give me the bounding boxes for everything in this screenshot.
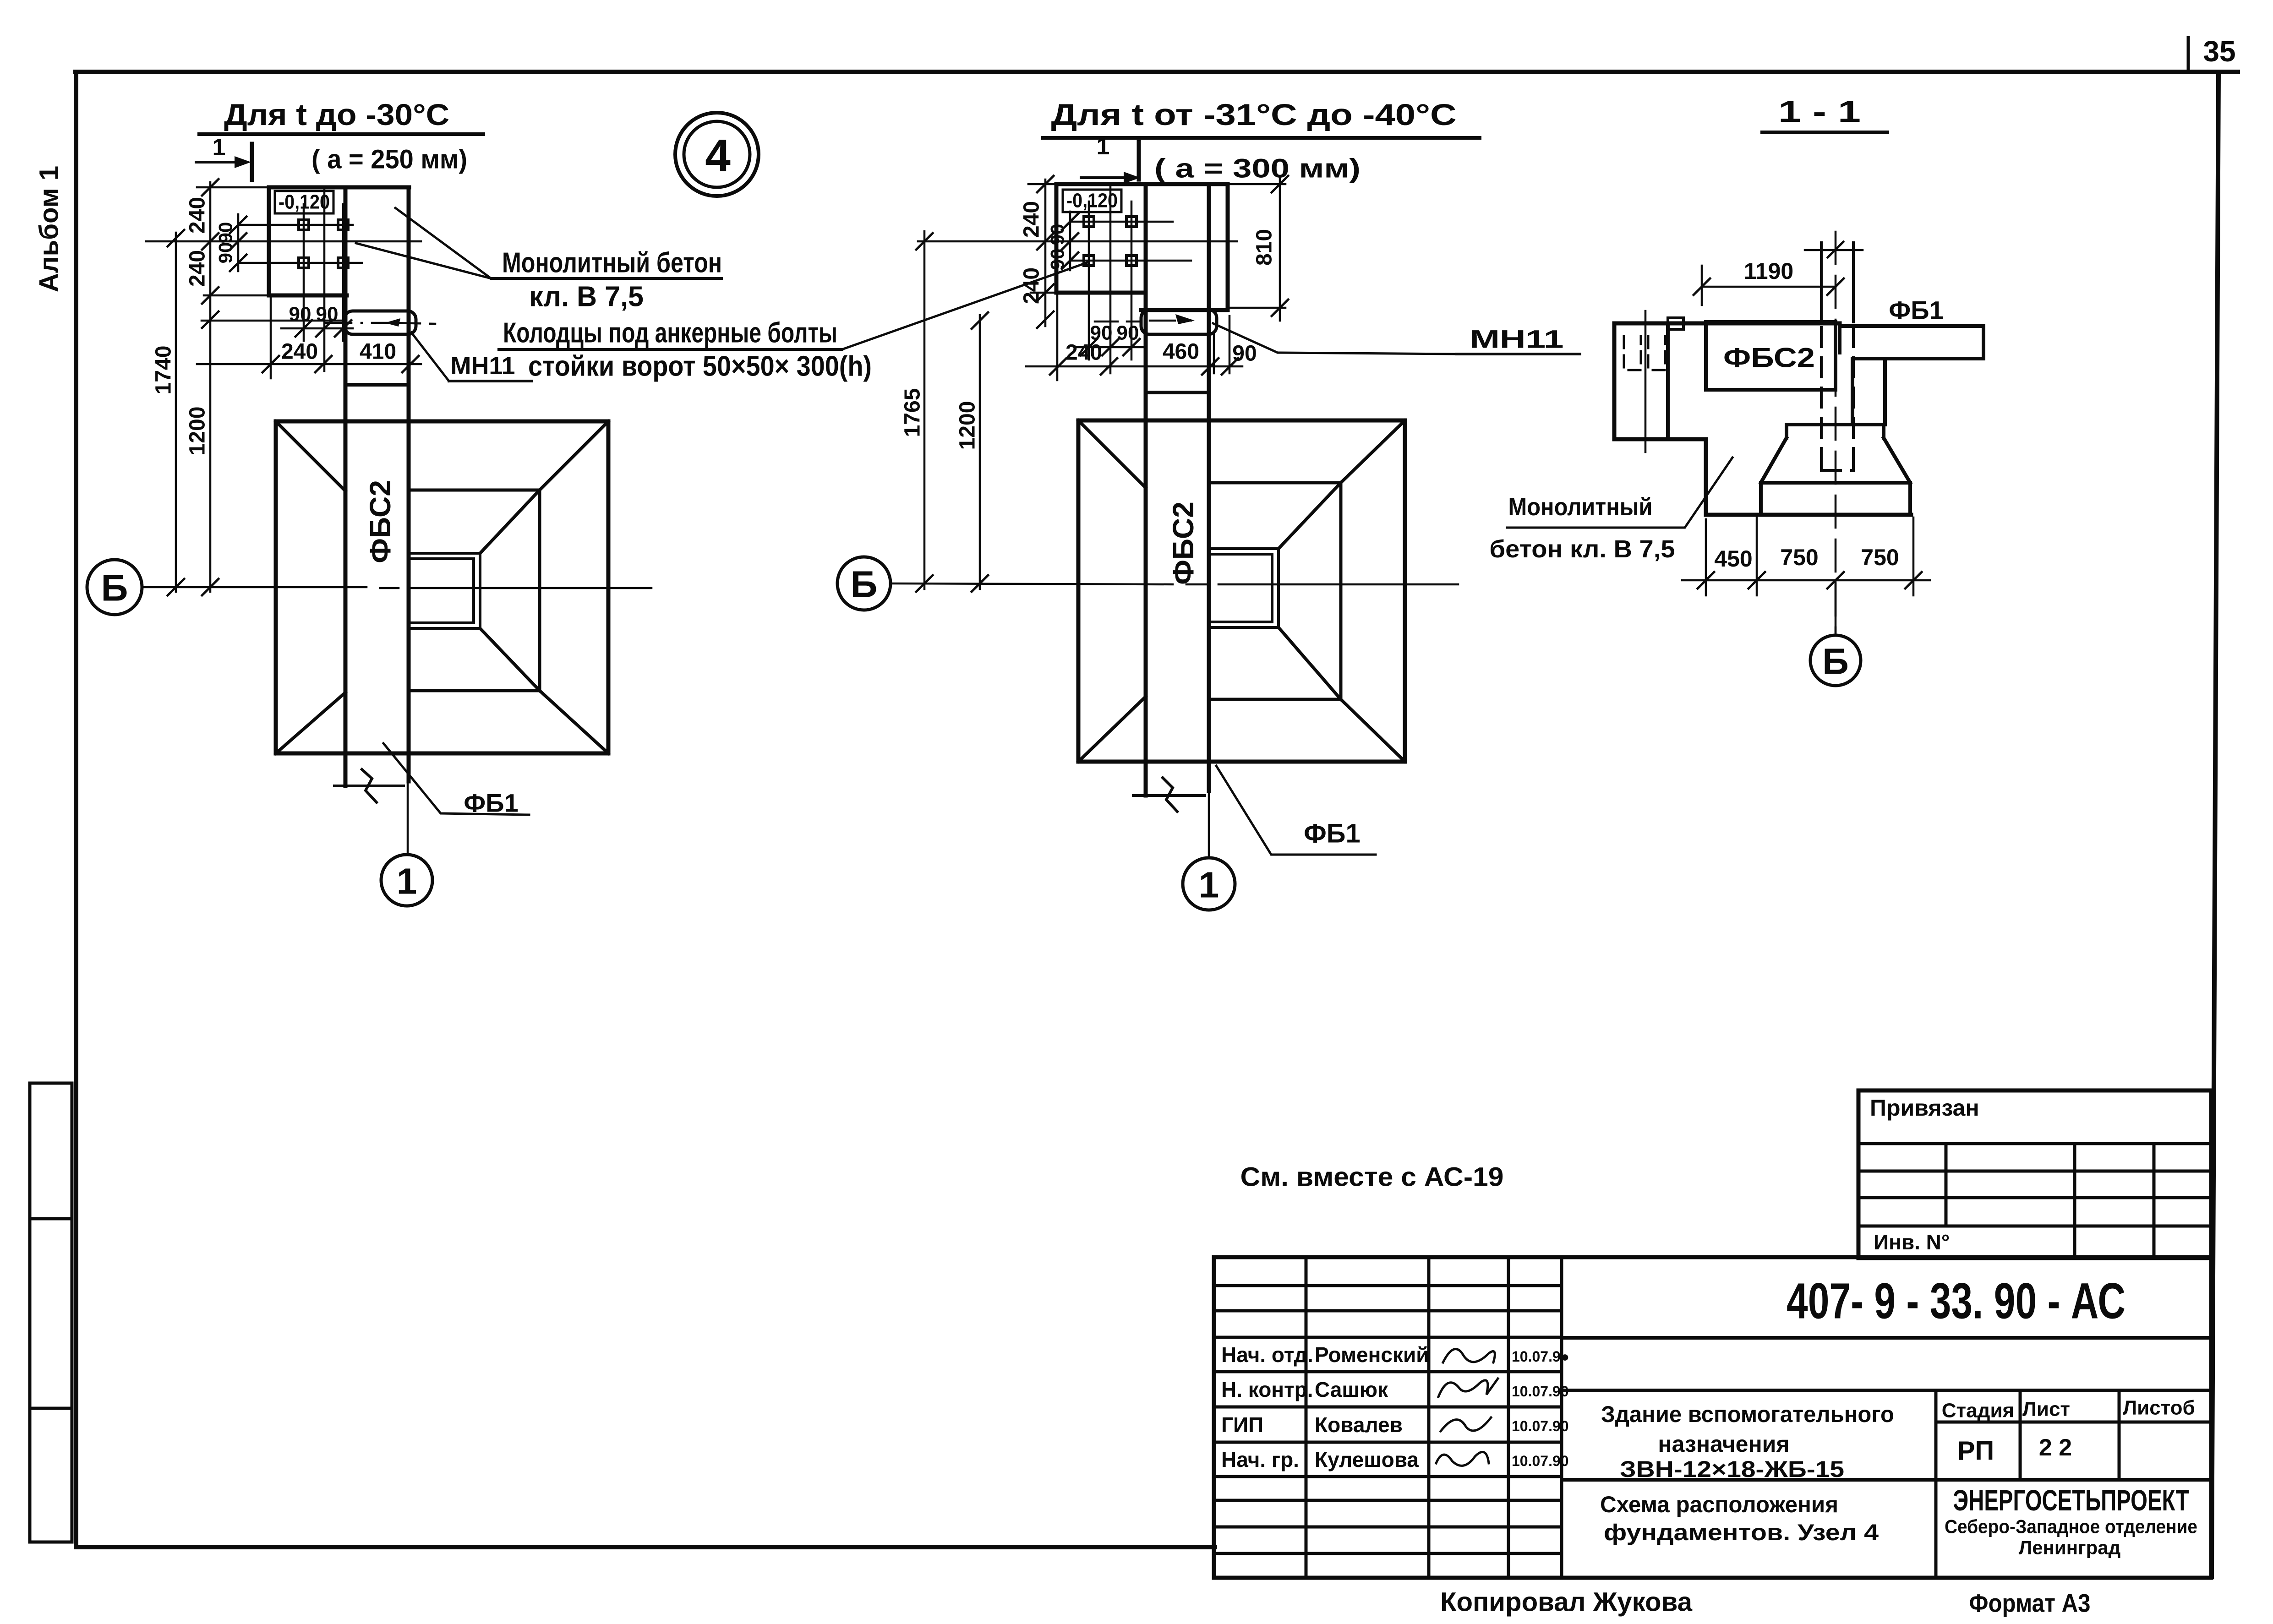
plan1 frustum diagonals (276, 421, 608, 753)
svg-text:90: 90 (1047, 249, 1068, 270)
svg-text:1200: 1200 (186, 407, 210, 456)
svg-text:10.07.90: 10.07.90 (1512, 1453, 1569, 1469)
plan2 FB1 leader (1216, 766, 1376, 855)
svg-text:Копировал Жукова: Копировал Жукова (1440, 1587, 1693, 1617)
left margin box column (30, 1083, 72, 1542)
svg-text:460: 460 (1163, 340, 1199, 364)
plan1 dim 90 90 below pad (281, 327, 353, 330)
svg-text:810: 810 (1252, 229, 1277, 266)
plan2 axis 1 circle (1183, 858, 1235, 910)
plan2 frustum diagonals (1078, 420, 1405, 762)
svg-text:1: 1 (1097, 133, 1110, 160)
svg-text:ФБС2: ФБС2 (1723, 343, 1815, 373)
section left block bolt axis (1645, 311, 1647, 452)
svg-text:1740: 1740 (152, 346, 176, 395)
svg-text:кл. В 7,5: кл. В 7,5 (529, 281, 644, 313)
plan1 pad left edge extension (270, 298, 272, 378)
plan2 dim chain 1200 line (979, 315, 981, 589)
plan2 dim 810 (1279, 178, 1281, 321)
svg-text:Стадия: Стадия (1942, 1400, 2014, 1422)
svg-text:407- 9 - 33. 90 - АС: 407- 9 - 33. 90 - АС (1787, 1273, 2125, 1330)
plan2 collar centreline (1095, 321, 1191, 322)
svg-text:Монолитный: Монолитный (1508, 493, 1653, 521)
svg-text:450: 450 (1714, 546, 1752, 572)
svg-text:ФБ1: ФБ1 (1304, 819, 1360, 849)
plan2 level label -0,120 box (1063, 190, 1121, 212)
plan2 bolt axis verticals (1089, 202, 1131, 360)
svg-text:90: 90 (215, 242, 236, 264)
svg-text:Формат А3: Формат А3 (1969, 1589, 2091, 1618)
plan2 column strip edges (1144, 184, 1148, 796)
section title underline (1762, 131, 1887, 134)
plan1 level label -0,120 box (275, 191, 333, 213)
plan1 axis B circle (87, 560, 142, 615)
plan2 top extension line (1028, 183, 1285, 185)
svg-text:Кулешова: Кулешова (1315, 1448, 1419, 1471)
plan2 column break line (1133, 794, 1205, 797)
svg-text:МН11: МН11 (1470, 325, 1564, 354)
svg-text:Б: Б (101, 567, 128, 609)
plan2 inner square double line (1210, 549, 1279, 627)
plan2 dim 240/460/90 (1026, 365, 1242, 368)
svg-text:Привязан: Привязан (1870, 1095, 1979, 1121)
svg-text:МН11: МН11 (450, 352, 515, 380)
svg-text:( a = 250 мм): ( a = 250 мм) (311, 145, 467, 174)
plan1 dim chain 1740 line (175, 233, 177, 592)
section axis dashed vertical (1835, 232, 1837, 634)
svg-text:90: 90 (1232, 342, 1257, 366)
frame top border (76, 70, 2238, 74)
svg-text:Колодцы под анкерные болты: Колодцы под анкерные болты (503, 317, 837, 349)
svg-text:1765: 1765 (901, 388, 925, 437)
frame bottom border (76, 1545, 1215, 1549)
section well dashed outline (1821, 327, 1853, 470)
svg-text:1: 1 (213, 134, 226, 161)
svg-text:240: 240 (186, 250, 210, 287)
svg-text:1190: 1190 (1744, 258, 1793, 284)
svg-text:Здание вспомогательного: Здание вспомогательного (1601, 1401, 1894, 1427)
svg-text:ФБС2: ФБС2 (1167, 501, 1200, 585)
svg-text:См. вместе с АС-19: См. вместе с АС-19 (1240, 1162, 1504, 1192)
svg-text:10.07.9●: 10.07.9● (1512, 1348, 1569, 1365)
plan1 pad centre vertical (323, 187, 326, 371)
frame left border (74, 72, 78, 1547)
section post top tick (1805, 249, 1863, 251)
plan1 pad bottom extension (204, 294, 269, 297)
plan2 collar MH11 (1141, 310, 1217, 334)
section post above ground (1821, 243, 1853, 322)
svg-text:Нач. отд.: Нач. отд. (1221, 1343, 1313, 1367)
plan2 column joint line (1146, 391, 1209, 394)
monolithic concrete leaders (356, 208, 491, 278)
plan2 axis 1 line to bubble (1208, 762, 1210, 858)
svg-text:Н. контр.: Н. контр. (1221, 1378, 1313, 1401)
section dim 1190 (1702, 266, 1836, 305)
detail mark circle 4 (675, 113, 759, 196)
svg-text:Ленинград: Ленинград (2019, 1537, 2121, 1559)
plan2 MH11 leader (1213, 323, 1457, 354)
plan2 axis B circle (837, 557, 891, 610)
svg-text:1: 1 (1199, 865, 1219, 905)
plan2 dim chain 1765 line (923, 231, 926, 589)
svg-text:Схема расположения: Схема расположения (1600, 1492, 1838, 1517)
svg-text:240: 240 (186, 197, 210, 234)
svg-text:ФБ1: ФБ1 (464, 789, 518, 817)
svg-text:Монолитный бетон: Монолитный бетон (502, 247, 722, 279)
small table rows (1858, 1144, 2211, 1226)
plan1 top extension line (197, 186, 269, 189)
plan1 axis 1 circle (381, 855, 432, 906)
plan1 centreline axis B (143, 587, 651, 588)
svg-text:фундаментов. Узел 4: фундаментов. Узел 4 (1604, 1520, 1879, 1545)
plan2 dim chain 90/90 line (1069, 212, 1071, 270)
stage table verticals (1936, 1390, 2211, 1578)
plan1 bolt axis verticals (304, 204, 343, 341)
svg-text:Инв. N°: Инв. N° (1874, 1230, 1950, 1254)
svg-text:Б: Б (851, 564, 878, 605)
svg-text:90: 90 (215, 222, 236, 244)
title block doc number box line (1562, 1338, 2211, 1480)
svg-text:ФБС2: ФБС2 (364, 480, 397, 563)
svg-text:2 2: 2 2 (2039, 1434, 2072, 1461)
svg-text:Листоб: Листоб (2123, 1397, 2195, 1419)
svg-text:750: 750 (1861, 545, 1899, 570)
svg-text:Себеро-Западное отделение: Себеро-Западное отделение (1945, 1516, 2197, 1537)
plan1 inner square double line (409, 553, 480, 628)
plan1 extension line collar level (202, 320, 344, 322)
svg-text:Сашюк: Сашюк (1315, 1378, 1388, 1401)
svg-text:90: 90 (289, 303, 311, 326)
plan2 anchor bolts (1084, 217, 1094, 227)
plan2 dim 90 90 below pad (1074, 346, 1145, 349)
plan1 dim chain 240/240/1200 line (209, 182, 212, 592)
svg-text:ЗВН-12×18-ЖБ-15: ЗВН-12×18-ЖБ-15 (1620, 1456, 1844, 1482)
plan1 section cut mark 1 (196, 161, 236, 163)
signature squiggles (1443, 1349, 1495, 1362)
plan2 dim chain 240/240 line (1044, 180, 1047, 326)
plan1 collar arrow (385, 318, 400, 327)
svg-text:410: 410 (360, 340, 396, 364)
plan2 pad left edge extension (1056, 295, 1059, 380)
page number tick top right (2187, 38, 2190, 72)
plan2 pad bottom extension (1031, 292, 1056, 294)
plan1 dim 240/410 (197, 363, 421, 365)
svg-text:90: 90 (1047, 224, 1068, 245)
plan1 axis 1 line to bubble (407, 753, 409, 855)
svg-text:( a = 300 мм): ( a = 300 мм) (1154, 154, 1361, 184)
svg-text:Для t от -31°С до -40°С: Для t от -31°С до -40°С (1051, 98, 1457, 131)
plan2 bolt row lines (1070, 222, 1191, 261)
svg-text:Б: Б (1822, 641, 1849, 682)
plan1 column break line (334, 785, 404, 787)
svg-text:240: 240 (1020, 201, 1044, 238)
anchor bolt wells leader to plan2 (842, 262, 1089, 349)
svg-text:бетон кл. В 7,5: бетон кл. В 7,5 (1490, 535, 1675, 563)
svg-text:240: 240 (1065, 341, 1102, 365)
plan1 break zigzag (362, 769, 377, 802)
section anchor wells dashed (1624, 336, 1641, 370)
frame right border (2212, 72, 2218, 1577)
svg-text:90: 90 (1117, 322, 1139, 344)
plan2 bottom extension for 810 (1228, 307, 1285, 309)
small table outline (1858, 1090, 2211, 1258)
plan2 break zigzag (1163, 778, 1177, 812)
svg-text:240: 240 (281, 340, 318, 364)
plan1 collar centreline (326, 323, 435, 324)
plan1 axis B horizontal through pad (146, 240, 421, 243)
svg-text:Роменский: Роменский (1315, 1343, 1429, 1367)
svg-text:4: 4 (705, 130, 731, 181)
plan2 title underline (1043, 136, 1480, 140)
svg-text:Ковалев: Ковалев (1315, 1413, 1403, 1437)
plan2 middle square visible edges (1209, 483, 1341, 699)
svg-text:ФБ1: ФБ1 (1889, 296, 1943, 325)
plan1 middle square visible edges (408, 490, 540, 691)
plan2 centreline axis B (891, 583, 1458, 584)
plan1 anchor bolts (299, 220, 309, 230)
section FB1 beam (1840, 326, 1983, 359)
section small plate MH11 (1668, 318, 1683, 329)
plan1 bolt row lines (238, 225, 362, 263)
small table columns (1946, 1144, 2154, 1258)
plan1 pad outline (269, 187, 409, 295)
svg-text:стойки ворот 50×50× 300(h): стойки ворот 50×50× 300(h) (528, 351, 872, 382)
svg-text:РП: РП (1957, 1436, 1994, 1466)
svg-text:Нач. гр.: Нач. гр. (1221, 1448, 1299, 1471)
plan1 footing square (276, 421, 608, 753)
plan1 FB1 leader (383, 743, 529, 815)
section FBS2 block (1706, 322, 1836, 390)
plan1 title underline (199, 132, 483, 136)
svg-text:240: 240 (1020, 267, 1044, 304)
section monolith outline (1614, 323, 1911, 515)
plan1 MH11 leader (411, 332, 449, 381)
svg-text:35: 35 (2203, 35, 2235, 68)
section FB1 leg (1852, 359, 1885, 425)
plan1 column joint line (345, 383, 408, 387)
svg-text:1: 1 (397, 861, 417, 902)
section footing neck (1761, 425, 1910, 515)
plan2 section cut mark 1 (1081, 176, 1122, 179)
svg-text:1200: 1200 (956, 401, 980, 450)
plan2 pad centre vertical (1109, 184, 1112, 373)
svg-text:ЭНЕРГОСЕТЬПРОЕКТ: ЭНЕРГОСЕТЬПРОЕКТ (1953, 1484, 2189, 1517)
plan2 extension verticals below collar (1214, 316, 1229, 373)
plan1 collar MH11 (344, 311, 416, 334)
svg-text:ГИП: ГИП (1221, 1413, 1263, 1437)
svg-text:750: 750 (1780, 545, 1818, 570)
plan2 pad outline (1056, 184, 1228, 310)
title block left verticals (1306, 1257, 1562, 1578)
section bottom dim chain 450/750/750 (1682, 518, 1930, 595)
svg-text:1 - 1: 1 - 1 (1778, 94, 1861, 128)
svg-text:10.07.90: 10.07.90 (1512, 1418, 1569, 1434)
svg-text:назначения: назначения (1658, 1431, 1789, 1457)
section axis B circle (1835, 580, 1837, 635)
plan2 footing square (1078, 420, 1405, 762)
svg-text:Альбом 1: Альбом 1 (34, 166, 64, 292)
svg-text:Лист: Лист (2022, 1398, 2070, 1421)
title block outer (1214, 1257, 2211, 1578)
plan2 collar arrow (1175, 314, 1195, 324)
plan2 axis B horizontal through pad (918, 240, 1237, 243)
svg-text:Для t до -30°С: Для t до -30°С (224, 98, 449, 131)
title block left rows (1214, 1286, 1562, 1553)
svg-text:90: 90 (316, 303, 339, 326)
plan1 dim chain 90/90 line (237, 214, 240, 271)
plan1 column strip edges (344, 187, 348, 786)
